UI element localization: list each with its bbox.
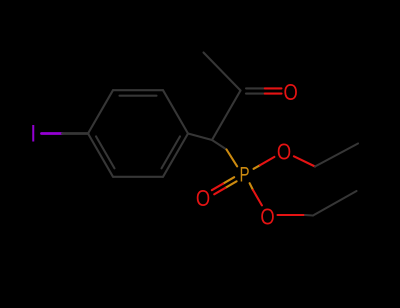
ring bond C3-C2 (113, 89, 163, 91)
ring bond C4-C3 (88, 90, 113, 133)
svg-text:I: I (30, 119, 36, 146)
bond P to upper ester O (254, 165, 260, 169)
ring bond C1-C6 (163, 134, 188, 177)
bond lower CH2 to CH3 (313, 191, 357, 216)
bond upper O to CH2 (red) (294, 156, 315, 166)
ring inner double-bond line C1=C6 (162, 136, 181, 168)
ring inner double-bond line C5=C4 (96, 136, 115, 168)
ring inner double-bond line C3=C2 (120, 95, 157, 97)
bond alpha carbon to P (carbon half) (212, 140, 227, 150)
carbonyl C=O double bond (246, 87, 265, 89)
bond lower O to CH2 (carbon part) (305, 214, 313, 217)
ring bond C6-C5 (113, 176, 163, 178)
svg-text:O: O (277, 140, 291, 165)
bond P to lower ester O (250, 183, 253, 190)
P=O double bond (223, 177, 234, 184)
bond alpha carbon to carbonyl carbon (212, 91, 241, 141)
bond ring C1 to alpha carbon (188, 134, 212, 141)
svg-text:O: O (284, 80, 298, 105)
bond carbonyl carbon to methyl CH3 (204, 53, 241, 91)
bond upper CH2 to CH3 (315, 144, 358, 167)
svg-text:O: O (260, 205, 274, 230)
bond I to ring C4 (carbon half) (63, 132, 89, 135)
ring bond C5-C4 (88, 134, 113, 177)
svg-text:P: P (239, 162, 249, 186)
svg-text:O: O (196, 186, 210, 211)
bond alpha carbon to P (phosphorus half) (227, 150, 238, 167)
ring bond C2-C1 (163, 90, 188, 133)
bond I to ring C4 (purple half) (42, 132, 63, 135)
bond lower O to CH2 (red part) (278, 214, 306, 216)
